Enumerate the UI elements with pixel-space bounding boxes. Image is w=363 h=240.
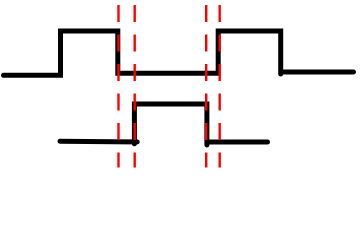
signal B (bottom waveform) left low segment [60,139,137,145]
signal B pulse: rising edge, high segment, falling edge [134,104,207,145]
signal A right low segment [281,70,354,75]
timing marker line 4 (signal A rising edge) [218,5,220,168]
timing marker line 2 (signal B rising edge) [133,5,135,168]
timing marker line 3 (signal B falling edge) [205,5,207,168]
timing marker line 1 (signal A falling edge) [117,5,119,168]
signal A (top waveform) main trace [4,31,281,75]
signal B right low segment [207,140,268,145]
